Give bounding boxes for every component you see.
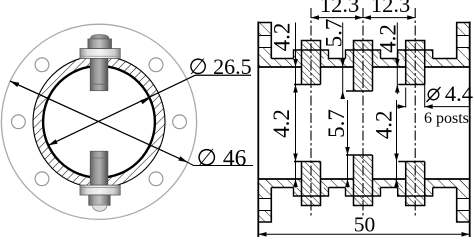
top post 3 collar hatch xyxy=(398,50,433,59)
top post 1 shaft outline xyxy=(302,41,321,85)
top post upper shaft xyxy=(88,39,112,49)
top post 3 collar outline xyxy=(398,50,433,59)
top post 2 shaft hatch xyxy=(354,41,373,92)
post 2 bottom dim line xyxy=(347,100,349,188)
bottom post inner shaft seam xyxy=(90,157,107,159)
right bottom tab outline xyxy=(457,188,470,223)
bottom post 2 shaft hatch xyxy=(354,155,373,206)
dim line dia46 underline xyxy=(188,162,253,165)
top post 1 dim arrows xyxy=(293,59,298,67)
top plate top surface line xyxy=(271,58,293,60)
svg-text:12.3: 12.3 xyxy=(320,0,359,17)
svg-text:∅ 26.5: ∅ 26.5 xyxy=(189,54,252,79)
top post 2 collar outline xyxy=(346,50,381,59)
dim line 12.3 xyxy=(311,17,415,19)
left top flange tab hatch xyxy=(258,23,271,68)
right bottom flange tab hatch xyxy=(457,179,470,222)
top plate bottom surface line (thick) xyxy=(258,66,301,68)
dia4.4 arrows xyxy=(398,104,406,109)
top plate hatch xyxy=(258,59,469,68)
svg-text:6 posts: 6 posts xyxy=(424,110,469,127)
bolt hole 4 xyxy=(12,115,26,129)
top post washer xyxy=(80,49,120,59)
dim line 50 xyxy=(259,233,470,235)
left top tab outline xyxy=(258,23,271,59)
label dia4.4 glyph xyxy=(428,89,439,100)
bottom post lower shaft xyxy=(89,195,111,205)
bottom post inner shaft xyxy=(90,151,108,185)
top post inner shaft seam xyxy=(90,83,107,85)
bolt hole lines left bottom tab xyxy=(258,198,271,200)
bottom post washer edge line xyxy=(81,187,120,189)
svg-text:∅ 46: ∅ 46 xyxy=(197,146,247,172)
svg-text:4.2: 4.2 xyxy=(376,24,401,53)
bottom post 2 tip line xyxy=(346,154,373,156)
bolt hole band right top tab xyxy=(457,36,470,48)
left edge line xyxy=(257,22,259,238)
svg-text:4.2: 4.2 xyxy=(372,111,397,140)
top post 2 dim arrows xyxy=(340,59,345,67)
bottom plate hatch xyxy=(258,179,469,188)
bottom post 2 shaft outline xyxy=(354,155,373,206)
bottom post 3 shaft outline xyxy=(406,162,425,206)
svg-text:50: 50 xyxy=(354,213,376,237)
bottom post 2 dim arrows xyxy=(345,147,350,155)
arrow dia26.5 upper-right xyxy=(140,98,149,104)
top post inner shaft xyxy=(90,59,108,91)
right top flange tab hatch xyxy=(457,23,470,68)
bolt hole lines left top tab xyxy=(258,35,271,37)
bolt hole 3 xyxy=(35,58,49,72)
bolt hole band left top tab xyxy=(258,36,271,48)
top post 3 shaft hatch xyxy=(406,41,425,85)
top post 3 shaft outline xyxy=(406,41,425,85)
bolt hole band right bottom tab xyxy=(457,199,470,211)
arrows 50 xyxy=(259,232,267,237)
bottom post 1 shaft hatch xyxy=(302,162,321,206)
bottom post 2 collar hatch xyxy=(346,188,381,197)
svg-text:4.2: 4.2 xyxy=(270,23,295,52)
top post 2 shaft outline xyxy=(354,41,373,92)
top post 1 shaft hatch xyxy=(302,41,321,85)
dia4.4 extension lines xyxy=(405,88,407,108)
flange outer circle xyxy=(1,24,196,219)
dim line dia26.5 underline xyxy=(195,74,251,76)
top post 1 collar outline xyxy=(294,50,329,59)
svg-text:4.2: 4.2 xyxy=(269,109,294,138)
dim line dia46 xyxy=(10,81,188,162)
bolt hole 6 xyxy=(149,172,163,186)
post 1 dim line xyxy=(295,23,297,188)
bottom plate top surface line (thick) xyxy=(258,178,301,180)
svg-text:5.7: 5.7 xyxy=(322,19,347,48)
arrow dia46 upper-left xyxy=(10,81,19,87)
top post 3 tip line xyxy=(398,84,425,86)
top post 2 collar hatch xyxy=(346,50,381,59)
bottom post 3 collar hatch xyxy=(398,188,433,197)
bolt hole lines right bottom tab xyxy=(457,198,470,200)
bottom post 3 shaft hatch xyxy=(406,162,425,206)
bottom post dome cap xyxy=(93,205,107,211)
dia4.4 dim line xyxy=(396,106,406,108)
svg-text:5.7: 5.7 xyxy=(324,109,349,138)
tube wall ring hatch xyxy=(33,56,165,188)
arrow dia46 lower-right xyxy=(178,156,187,162)
bottom plate bottom surface line xyxy=(271,187,293,189)
bolt hole 2 xyxy=(149,58,163,72)
bottom post 3 dim arrows xyxy=(394,154,399,162)
bottom post washer xyxy=(80,185,120,195)
dim line dia26.5 xyxy=(48,75,195,145)
bolt hole 1 xyxy=(173,115,187,129)
arrow dia26.5 lower-left xyxy=(48,139,57,145)
post 2 centerline xyxy=(362,8,364,218)
post 3 centerline xyxy=(414,8,416,218)
left bottom flange tab hatch xyxy=(258,179,271,222)
top post dome cap xyxy=(91,35,109,39)
top post 2 tip line xyxy=(346,90,373,92)
svg-text:4.4: 4.4 xyxy=(445,81,473,106)
right top tab outline xyxy=(457,23,470,59)
top post 1 tip line xyxy=(294,84,321,86)
bottom post 1 collar outline xyxy=(294,188,329,197)
bore circle (thick) xyxy=(43,66,155,178)
post 3 bottom dim line xyxy=(396,100,398,188)
ring outer circle xyxy=(33,56,165,188)
post 1 centerline xyxy=(310,8,312,218)
bolt hole band left bottom tab xyxy=(258,199,271,211)
bottom post 3 collar outline xyxy=(398,188,433,197)
bottom post 1 dim arrows xyxy=(293,154,298,162)
top post washer edge line xyxy=(81,55,120,57)
bottom post 1 shaft outline xyxy=(302,162,321,206)
bolt hole 5 xyxy=(35,172,49,186)
bottom post 3 tip line xyxy=(398,161,425,163)
top post 3 dim arrows xyxy=(395,59,400,67)
right edge line xyxy=(469,22,471,238)
bottom post 1 collar hatch xyxy=(294,188,329,197)
bottom post 2 collar outline xyxy=(346,188,381,197)
bolt hole lines right top tab xyxy=(457,35,470,37)
left bottom tab outline xyxy=(258,188,271,223)
bottom post 1 tip line xyxy=(294,161,321,163)
top post 1 collar hatch xyxy=(294,50,329,59)
post 2 top dim line xyxy=(342,23,344,95)
svg-text:12.3: 12.3 xyxy=(371,0,410,17)
arrows 12.3 xyxy=(311,15,319,20)
post 3 top dim line xyxy=(396,23,398,95)
